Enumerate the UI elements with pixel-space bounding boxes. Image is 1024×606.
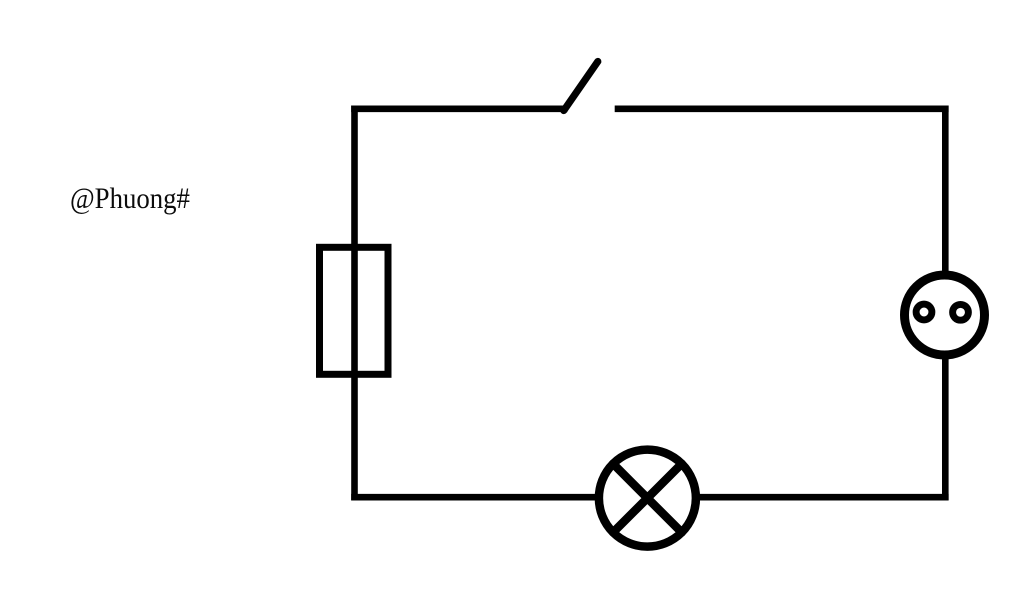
wire right vertical upper — [942, 106, 949, 274]
lamp X stroke 2 — [613, 464, 682, 533]
lamp L1 outline — [599, 450, 696, 547]
fuse / battery box F1 — [320, 247, 389, 374]
lamp X stroke 1 — [613, 464, 682, 533]
socket pin right — [953, 304, 969, 320]
label @Phuong# — [70, 184, 190, 214]
wire top-left segment — [351, 106, 567, 113]
wire bottom-left segment — [351, 494, 596, 501]
power source / socket outline — [905, 275, 985, 355]
wire right vertical lower — [942, 357, 949, 500]
wire top-right segment — [615, 106, 949, 113]
wire left vertical — [351, 106, 358, 501]
switch S1 lever (open) — [564, 62, 598, 111]
socket pin left — [916, 304, 932, 320]
wire bottom-right segment — [700, 494, 949, 501]
